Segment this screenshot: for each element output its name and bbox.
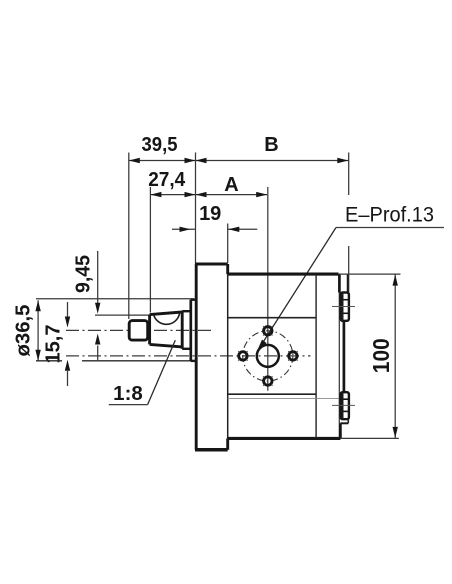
extension line body top right y=274.1 <box>339 273 401 275</box>
body joint line <box>315 274 317 438</box>
E-Prof.13 leader arrowhead <box>256 340 266 353</box>
body top edge <box>228 273 339 276</box>
shaft keyway arc <box>154 314 180 325</box>
arrow right tip B <box>337 158 348 163</box>
svg-text:9,45: 9,45 <box>73 255 95 293</box>
shaft taper top line <box>150 312 183 315</box>
arrow left tip 27,4 <box>150 192 161 197</box>
arrow down tip 100 <box>393 427 398 438</box>
flange rear edge <box>226 264 229 274</box>
top fitting centre line <box>332 306 355 308</box>
top port fitting <box>341 293 349 321</box>
front square top <box>228 317 316 319</box>
faint rear step line <box>228 398 344 400</box>
shaft taper bottom line <box>150 344 183 347</box>
right edge top corner thick <box>338 274 341 292</box>
flange bottom <box>195 448 228 452</box>
port centre vertical line <box>267 187 269 391</box>
dimension line 19 (outside arrows) <box>172 228 196 230</box>
dimension 15,7 (outside arrows) <box>67 302 69 317</box>
dimension line 39,5 / B <box>129 160 348 162</box>
port centre circle <box>257 345 279 367</box>
body right edge thin <box>338 274 340 438</box>
shaft hub face <box>181 311 184 349</box>
svg-text:1:8: 1:8 <box>113 382 143 405</box>
arrow right tip 39,5 <box>185 158 196 163</box>
dimension 9,45 (outside arrows) <box>97 251 99 303</box>
dimension 100 <box>394 274 396 438</box>
svg-text:100: 100 <box>368 338 394 373</box>
svg-text:E–Prof.13: E–Prof.13 <box>345 204 434 227</box>
E-Prof.13 leader line <box>259 228 337 350</box>
extension line body rear x=348.7 (interrupted by E-Prof.13 text) <box>348 153 350 196</box>
arrow up tip d36,5 <box>35 300 40 311</box>
body bottom edge <box>228 437 341 440</box>
shaft hub top <box>182 310 191 312</box>
bottom rear step <box>347 419 349 423</box>
arrow 19 left (points right, tip at flange face ext) <box>180 227 191 232</box>
spigot face (d36,5) <box>189 300 192 361</box>
bolt hole top <box>263 326 272 335</box>
extension line body bottom right y=438.4 <box>340 437 399 439</box>
rear plate edge top <box>347 274 349 292</box>
shaft end stub <box>129 321 148 341</box>
bolt hole right <box>288 351 297 360</box>
svg-text:27,4: 27,4 <box>148 169 186 191</box>
svg-text:A: A <box>224 174 238 196</box>
flange face <box>195 264 198 450</box>
arrow left tip 39,5 <box>129 158 140 163</box>
shaft taper face <box>148 315 151 345</box>
extension line flange face x=195.5 <box>195 153 197 264</box>
svg-text:15,7: 15,7 <box>43 325 65 364</box>
extension line shaft end x=128.8 <box>128 153 130 320</box>
front square bottom <box>228 393 316 395</box>
svg-text:19: 19 <box>199 203 221 225</box>
arrow up tip 100 <box>393 275 398 286</box>
svg-text:B: B <box>264 134 278 156</box>
bolt hole left <box>238 351 247 360</box>
arrow down tip d36,5 <box>35 350 40 361</box>
extension line flange rear x=227.7 <box>227 224 229 264</box>
1:8 underline <box>109 404 148 406</box>
flange top <box>195 262 228 265</box>
shaft hub bottom <box>182 348 191 350</box>
bottom port fitting <box>341 392 349 419</box>
bolt hole bottom <box>263 376 272 385</box>
extension line taper start x=150.4 <box>149 187 151 313</box>
arrow left tip B <box>196 158 207 163</box>
rear bulge edge <box>343 321 346 392</box>
arrow right tip 27,4 <box>185 192 196 197</box>
dimension line diameter 36,5 <box>37 300 39 360</box>
arrow right tip A <box>256 192 267 197</box>
1:8 leader line <box>148 340 176 404</box>
extension line key flat y=315.1 <box>95 314 152 316</box>
svg-text:ø36,5: ø36,5 <box>13 305 35 357</box>
spigot top <box>191 299 196 301</box>
shaft centre line y=330.4 dash-dot <box>66 329 211 331</box>
dimension line 27,4 / A <box>150 194 267 196</box>
svg-text:39,5: 39,5 <box>142 134 178 156</box>
bolt circle dash-dot <box>243 331 293 381</box>
E-Prof.13 underline <box>336 227 444 229</box>
extension line d36,5 bottom y=360.8 dashed <box>36 360 62 362</box>
arrow left tip A <box>196 192 207 197</box>
extension line d36,5 top y=298.7 <box>36 298 194 300</box>
bottom fitting centre line <box>332 404 355 406</box>
spigot bottom <box>191 360 196 362</box>
port centre line y=355.9 dash-dot <box>66 355 311 357</box>
arrow 19 right (points left, tip at flange rear ext) <box>228 227 239 232</box>
